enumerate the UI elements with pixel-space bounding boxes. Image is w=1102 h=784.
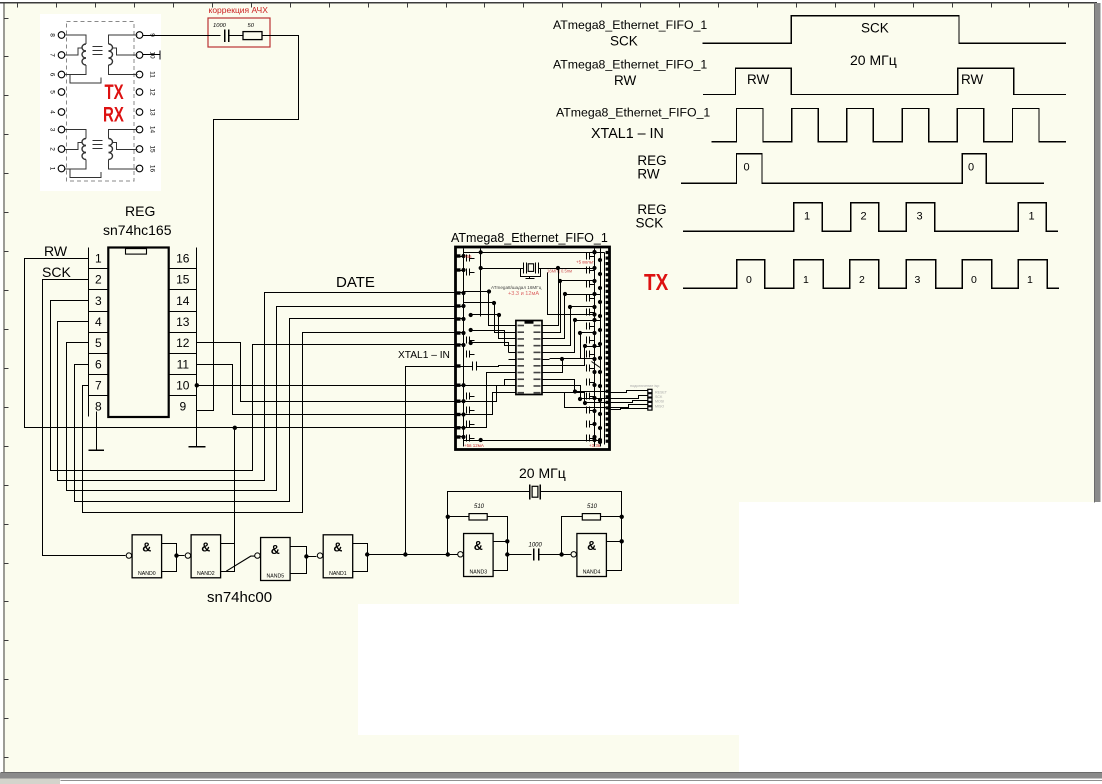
transformer module T1 background xyxy=(40,14,161,191)
white region bottom-right xyxy=(739,502,1102,775)
U2 wires lower-left to MCU xyxy=(464,380,509,386)
svg-text:3: 3 xyxy=(95,294,102,308)
svg-text:14: 14 xyxy=(149,126,156,134)
U2 wires left bus to MCU xyxy=(464,292,509,326)
svg-text:SCK: SCK xyxy=(636,216,664,231)
svg-text:0: 0 xyxy=(971,274,977,286)
svg-text:7: 7 xyxy=(49,53,56,57)
svg-text:RESET: RESET xyxy=(655,391,668,395)
svg-text:1: 1 xyxy=(1027,274,1033,286)
svg-text:0: 0 xyxy=(968,162,974,174)
svg-text:RW: RW xyxy=(44,243,68,259)
svg-text:+3.3в: +3.3в xyxy=(589,443,601,448)
svg-text:1: 1 xyxy=(1029,211,1035,223)
timing waveform REG RW xyxy=(681,154,1044,184)
svg-text:&: & xyxy=(587,539,596,553)
svg-text:6: 6 xyxy=(49,73,56,77)
svg-text:ATmega8/шадал 16МГц: ATmega8/шадал 16МГц xyxy=(491,285,542,290)
NAND gate NAND1 body xyxy=(323,535,353,578)
svg-text:&: & xyxy=(271,543,280,557)
svg-text:0: 0 xyxy=(744,162,750,174)
junction node RW / NAND2 output xyxy=(233,426,237,430)
white region bottom-center xyxy=(358,604,739,735)
svg-text:0: 0 xyxy=(746,274,752,286)
svg-text:4: 4 xyxy=(49,110,56,114)
U2 top internal rail xyxy=(464,252,605,254)
NAND gate NAND4 input bubble xyxy=(571,552,576,557)
NAND gate NAND0 body xyxy=(132,535,162,578)
svg-text:&: & xyxy=(333,540,342,554)
U2 MCU pin stubs xyxy=(509,325,516,327)
NAND gate NAND5 body xyxy=(261,538,291,581)
svg-text:16: 16 xyxy=(149,165,156,173)
NAND gate NAND5 input bubble xyxy=(255,553,260,558)
right scrollbar xyxy=(1095,3,1101,502)
svg-text:&: & xyxy=(142,540,151,554)
crystal Y1 xyxy=(529,485,531,500)
svg-text:ATmega8_Ethernet_FIFO_1: ATmega8_Ethernet_FIFO_1 xyxy=(451,231,608,245)
U2 left border pin pads xyxy=(455,254,461,257)
transformer lower loop xyxy=(70,169,101,178)
U2 wires MCU to right bus xyxy=(550,281,595,333)
svg-text:MOSI: MOSI xyxy=(655,400,664,404)
transformer winding secondary xyxy=(109,130,138,139)
wire SCK: U1 pin2 to NAND0 input xyxy=(43,280,126,556)
svg-text:3: 3 xyxy=(917,211,923,223)
timing waveform REG SCK xyxy=(683,203,1058,231)
junction node NAND1 out xyxy=(365,552,369,556)
wire NAND3 to capacitor xyxy=(508,554,532,556)
svg-text:+5в: +5в xyxy=(464,254,472,259)
svg-text:подключение isp: подключение isp xyxy=(630,384,659,388)
svg-text:NAND5: NAND5 xyxy=(267,574,285,580)
NAND gate NAND0 input bubble xyxy=(126,553,131,558)
U1 left pin boxes xyxy=(88,248,90,417)
capacitor C 1000 xyxy=(224,30,226,43)
svg-text:1000: 1000 xyxy=(213,23,227,29)
junction node NAND5 out xyxy=(304,554,308,558)
svg-text:11: 11 xyxy=(149,71,156,78)
wire NAND1 output to oscillator / XTAL net xyxy=(368,554,459,556)
timing waveform RW xyxy=(703,68,1066,94)
transformer winding primary xyxy=(65,35,86,44)
svg-text:MISO: MISO xyxy=(655,404,664,408)
NAND gate NAND3 input bubble xyxy=(458,552,463,557)
svg-text:RX: RX xyxy=(103,102,124,126)
svg-text:4: 4 xyxy=(95,315,102,329)
svg-text:NAND2: NAND2 xyxy=(197,571,215,577)
NAND1 output loop xyxy=(353,544,368,572)
wire U1 pin11 to module row B3 xyxy=(197,365,456,415)
resistor R 50 xyxy=(243,32,262,40)
svg-text:+5в 12мА: +5в 12мА xyxy=(464,443,484,448)
U2 wires MCU to ISP rows xyxy=(550,380,610,392)
svg-text:&: & xyxy=(474,539,483,553)
wire from T1 pin9 to correction network xyxy=(143,35,221,37)
U1 right pin boxes xyxy=(196,248,198,417)
svg-text:5: 5 xyxy=(49,90,56,94)
module U2 ATmega8 outer border xyxy=(456,247,610,450)
T1 left pins 1-8 xyxy=(58,32,65,39)
wire capacitor to NAND4 xyxy=(539,554,571,556)
transformer core xyxy=(93,140,103,142)
svg-text:12: 12 xyxy=(149,88,156,96)
svg-text:2: 2 xyxy=(49,147,56,151)
svg-text:NAND3: NAND3 xyxy=(470,570,488,576)
wire R2 right to NAND3 loop xyxy=(488,517,508,542)
timing waveform SCK xyxy=(703,16,1067,44)
NAND gate NAND2 body xyxy=(191,535,221,578)
wire U1 pin12 to module row B2 xyxy=(197,343,456,402)
U2 right border pin pads xyxy=(606,251,610,254)
transformer secondary center tap xyxy=(113,48,138,55)
junction node NAND0 out xyxy=(174,553,178,557)
svg-text:ATmega8_Ethernet_FIFO_1: ATmega8_Ethernet_FIFO_1 xyxy=(553,58,707,72)
wire DATE bit 0: U1 pin3 loop to module row xyxy=(51,301,456,471)
svg-text:XTAL1 – IN: XTAL1 – IN xyxy=(591,126,664,142)
wire U1 pin10 row to module B1 xyxy=(197,385,456,387)
svg-text:20 МГц: 20 МГц xyxy=(850,52,897,68)
svg-text:RW: RW xyxy=(637,167,660,182)
NAND gate NAND4 body xyxy=(577,534,607,577)
transformer primary center tap xyxy=(65,48,82,55)
svg-text:REG: REG xyxy=(125,203,155,219)
transformer winding primary xyxy=(65,130,86,139)
svg-text:7: 7 xyxy=(95,379,102,393)
junction node pin10/ground xyxy=(195,383,199,387)
pin 10 termination stub xyxy=(143,54,161,56)
svg-text:2: 2 xyxy=(859,274,865,286)
svg-text:6: 6 xyxy=(95,357,102,371)
svg-text:&: & xyxy=(201,540,210,554)
svg-text:5: 5 xyxy=(95,336,102,350)
wire XTAL1: oscillator to module xyxy=(406,367,456,555)
NAND5 output loop xyxy=(291,547,307,574)
wire NAND0 to NAND2 xyxy=(177,555,185,557)
U2 MCU IC body xyxy=(516,321,542,395)
NAND gate NAND3 body xyxy=(464,534,494,577)
svg-text:XTAL1 – IN: XTAL1 – IN xyxy=(398,350,450,361)
U2 left bus xyxy=(463,249,465,447)
wire DATE bit 2: U1 pin5 loop to module row xyxy=(67,307,456,491)
svg-text:1: 1 xyxy=(95,251,102,265)
svg-text:SCK: SCK xyxy=(861,21,889,36)
label TX xyxy=(105,79,125,103)
svg-text:NAND4: NAND4 xyxy=(583,570,601,576)
junction node XTAL tap xyxy=(403,552,407,556)
svg-text:12: 12 xyxy=(176,336,190,350)
svg-text:20 МГц: 20 МГц xyxy=(519,465,566,481)
NAND3 output loop xyxy=(494,542,508,571)
wire crystal right branch xyxy=(540,492,622,542)
wire capacitor to resistor xyxy=(229,35,243,37)
U2 right bus junction dots xyxy=(592,250,596,254)
svg-text:1: 1 xyxy=(804,211,810,223)
svg-text:DATE: DATE xyxy=(336,274,375,291)
wire RW: U1 pin1 to bus row B4 xyxy=(25,259,456,428)
frame top edge with ruler ticks xyxy=(0,2,1097,4)
svg-text:16: 16 xyxy=(176,251,190,265)
correction box outline (red) xyxy=(208,18,270,47)
U2 extra junction dots on staircase xyxy=(556,266,560,270)
svg-text:NAND0: NAND0 xyxy=(138,571,156,577)
ground symbol G1 xyxy=(89,449,105,451)
svg-text:1000: 1000 xyxy=(529,543,543,549)
wire DATE bit 1: U1 pin4 loop to module row xyxy=(58,293,456,481)
wire R3 branch up xyxy=(562,517,583,555)
svg-text:1: 1 xyxy=(49,167,56,171)
svg-text:sn74hc165: sn74hc165 xyxy=(103,222,172,238)
svg-text:ATmega8_Ethernet_FIFO_1: ATmega8_Ethernet_FIFO_1 xyxy=(556,106,710,120)
NAND gate NAND2 input bubble xyxy=(185,553,190,558)
svg-text:9: 9 xyxy=(179,400,186,414)
frame left edge with ruler ticks xyxy=(3,2,5,775)
transformer secondary center tap xyxy=(113,143,138,150)
IC U1 sn74hc165 body xyxy=(108,248,168,418)
U2 left vertical net xyxy=(480,249,482,317)
junction node C2/R3 xyxy=(559,552,563,556)
wire NAND2 to NAND5 (diagonal) xyxy=(226,556,254,571)
wire R3 right xyxy=(601,516,622,518)
svg-text:13: 13 xyxy=(149,108,156,116)
label TX (timing, red) xyxy=(644,270,668,295)
timing waveform TX xyxy=(683,260,1059,289)
svg-text:10: 10 xyxy=(176,379,190,393)
NAND0 output loop xyxy=(162,544,177,572)
wire U1 pin8 to ground xyxy=(96,412,98,451)
svg-text:SCK: SCK xyxy=(655,395,663,399)
label RX xyxy=(103,102,124,126)
bottom scrollbar xyxy=(0,773,1102,779)
svg-text:2: 2 xyxy=(861,211,867,223)
svg-text:15: 15 xyxy=(176,273,190,287)
NAND gate NAND1 input bubble xyxy=(317,553,322,558)
wire ground net pin15/pin10 to ground xyxy=(196,417,198,447)
svg-text:510: 510 xyxy=(474,504,485,510)
svg-text:11: 11 xyxy=(177,357,190,371)
U2 diagonal wire xyxy=(592,362,601,368)
svg-text:13: 13 xyxy=(176,315,190,329)
svg-text:15: 15 xyxy=(149,145,156,153)
svg-text:TX: TX xyxy=(105,79,125,103)
svg-text:14: 14 xyxy=(176,294,190,308)
svg-text:10: 10 xyxy=(149,51,156,59)
svg-text:TX: TX xyxy=(644,270,668,295)
wire NAND5 to NAND1 xyxy=(307,556,317,558)
wire DATE bit 4: U1 pin7 loop to module row xyxy=(83,333,456,513)
svg-text:ATmega8_Ethernet_FIFO_1: ATmega8_Ethernet_FIFO_1 xyxy=(553,18,707,32)
svg-text:SCK: SCK xyxy=(610,34,638,49)
T1 right pins 9-16 xyxy=(136,32,143,39)
U1 notch xyxy=(126,249,147,255)
junction nodes NAND3 out xyxy=(505,539,509,543)
ISP connector pin squares xyxy=(648,389,652,392)
svg-text:+3.3 и 12мА: +3.3 и 12мА xyxy=(508,291,539,297)
svg-text:1: 1 xyxy=(803,274,809,286)
svg-text:3: 3 xyxy=(915,274,921,286)
wire R2 left xyxy=(448,516,469,518)
svg-text:3: 3 xyxy=(49,128,56,132)
U2 left pad stubs and junctions xyxy=(456,256,464,258)
transformer lower loop xyxy=(70,75,101,84)
junction nodes crystal-left xyxy=(446,515,450,519)
wire from resistor to node, down-left to U1 pin9 xyxy=(197,36,299,411)
wire crystal left branch xyxy=(448,492,531,555)
svg-text:SCK: SCK xyxy=(42,264,71,280)
U2 MCU tiny pin labels xyxy=(518,325,525,327)
U2 right decoupling caps xyxy=(586,253,588,260)
transformer core xyxy=(93,46,103,48)
svg-text:RW: RW xyxy=(961,72,984,87)
svg-text:sn74hc00: sn74hc00 xyxy=(207,589,272,606)
timing waveform XTAL1 clock xyxy=(712,109,1066,142)
svg-text:RW: RW xyxy=(747,72,770,87)
U2 bottom internal bus xyxy=(464,440,601,442)
svg-text:+5 вольт: +5 вольт xyxy=(576,260,594,265)
U2 right bus lines xyxy=(594,249,596,447)
junction nodes crystal-right xyxy=(620,515,624,519)
U2 XTAL1 entry capacitor xyxy=(456,366,473,368)
transformer primary center tap xyxy=(65,143,82,150)
svg-text:50: 50 xyxy=(248,23,255,29)
svg-text:510: 510 xyxy=(587,504,598,510)
svg-text:NAND1: NAND1 xyxy=(329,571,347,577)
ISP connector wires xyxy=(610,391,648,393)
svg-text:RW: RW xyxy=(614,73,637,88)
U2 wire crystal XTAL2 branch xyxy=(548,273,595,315)
U2 crystal circuit xyxy=(481,268,524,270)
U2 left decoupling caps xyxy=(466,255,468,262)
transformer winding secondary xyxy=(109,35,138,44)
wire DATE bit 3: U1 pin6 loop to module row xyxy=(75,319,456,502)
svg-text:коррекция АЧХ: коррекция АЧХ xyxy=(209,5,269,15)
svg-text:2: 2 xyxy=(95,273,102,287)
NAND4 output loop xyxy=(607,542,622,571)
ground symbol G2 xyxy=(188,446,205,448)
NAND2 output loop and wire up to RW row xyxy=(221,428,235,572)
svg-text:8: 8 xyxy=(49,33,56,37)
transformer module T1 dashed outline xyxy=(67,22,135,182)
